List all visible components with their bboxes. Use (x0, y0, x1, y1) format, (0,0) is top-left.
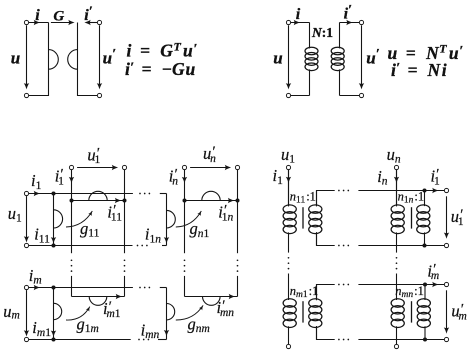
svg-text:gn1: gn1 (190, 219, 210, 240)
svg-text:i: i (35, 7, 40, 24)
svg-text:n11:1: n11:1 (290, 190, 316, 206)
svg-text:nmn:1: nmn:1 (395, 284, 424, 300)
svg-text:u1: u1 (281, 145, 295, 166)
svg-text:i = GTu′: i = GTu′ (127, 39, 198, 60)
svg-text:n1n:1: n1n:1 (398, 190, 424, 206)
svg-text:i1n: i1n (145, 225, 161, 246)
svg-text:u′m: u′m (451, 302, 466, 323)
svg-text:un: un (387, 145, 401, 166)
svg-text:g11: g11 (80, 219, 100, 240)
svg-text:i′n: i′n (169, 167, 178, 188)
svg-text:g1m: g1m (77, 314, 99, 335)
svg-text:i′m: i′m (427, 261, 439, 282)
svg-text:im1: im1 (32, 318, 51, 339)
svg-text:i′ = Ni: i′ = Ni (391, 60, 447, 80)
svg-text:imn: imn (141, 320, 160, 341)
svg-text:im: im (29, 266, 42, 287)
svg-text:u: u (11, 48, 20, 67)
svg-text:u1: u1 (8, 204, 22, 225)
svg-text:gnm: gnm (188, 314, 210, 335)
svg-text:u: u (273, 48, 282, 67)
svg-text:i: i (296, 6, 301, 23)
svg-text:u′n: u′n (203, 144, 216, 165)
svg-text:i′mn: i′mn (217, 298, 235, 319)
svg-text:u′: u′ (366, 47, 379, 67)
svg-text:i1: i1 (31, 171, 42, 192)
svg-text:i1: i1 (273, 166, 284, 187)
svg-text:N:1: N:1 (311, 25, 333, 40)
svg-text:i′: i′ (344, 3, 352, 23)
svg-text:i′11: i′11 (107, 203, 122, 224)
svg-text:i′1: i′1 (431, 167, 440, 188)
svg-text:G: G (53, 8, 64, 24)
svg-text:u′1: u′1 (87, 145, 100, 166)
svg-text:u′: u′ (103, 47, 116, 67)
svg-text:in: in (377, 167, 388, 188)
svg-text:nm1:1: nm1:1 (290, 284, 319, 300)
svg-text:i11: i11 (34, 225, 50, 246)
svg-text:i′m1: i′m1 (103, 299, 121, 320)
svg-text:i′1: i′1 (55, 167, 64, 188)
svg-text:i′ = −Gu: i′ = −Gu (125, 59, 195, 79)
svg-text:um: um (3, 302, 20, 322)
svg-text:u′1: u′1 (451, 207, 464, 228)
svg-text:i′: i′ (84, 4, 92, 24)
svg-text:i′1n: i′1n (218, 203, 233, 224)
